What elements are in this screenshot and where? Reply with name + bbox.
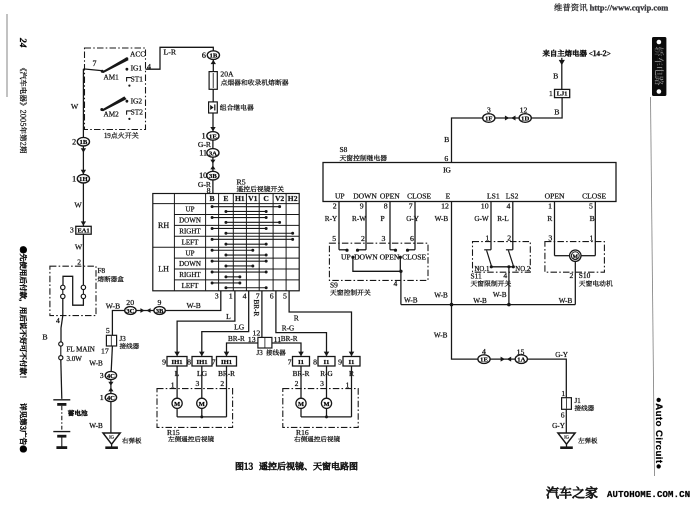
sunroof motor S10 [570, 250, 581, 261]
svg-text:1: 1 [485, 233, 489, 242]
svg-text:I1: I1 [298, 359, 304, 366]
svg-text:R-L: R-L [497, 215, 509, 223]
wire J1 to ground [565, 409, 567, 433]
svg-text:3: 3 [320, 379, 324, 388]
svg-text:7: 7 [288, 357, 292, 366]
svg-text:1: 1 [548, 202, 552, 211]
fusible link left branch [61, 285, 65, 289]
svg-text:7: 7 [212, 357, 216, 366]
wire W-B bus to 1E [452, 305, 479, 360]
svg-text:R-Y: R-Y [325, 215, 338, 223]
battery [53, 399, 70, 401]
svg-text:遥控后视镜、天窗电路图: 遥控后视镜、天窗电路图 [259, 459, 358, 472]
connector EA1 pin 3 [76, 226, 91, 234]
svg-text:轿车电路: 轿车电路 [652, 47, 666, 86]
svg-text:3B: 3B [209, 173, 217, 180]
svg-text:10: 10 [199, 171, 207, 180]
wire LG R5 pin4 to IH1-8 [202, 291, 249, 356]
svg-text:2: 2 [507, 233, 511, 242]
connector 3B pin 10 [207, 171, 219, 180]
R16 motor left [296, 398, 306, 408]
wire R S8 OPEN to S10 [554, 202, 556, 256]
S11 common to pin 4 [491, 266, 513, 268]
wire FL MAIN to battery [61, 360, 62, 399]
svg-text:9: 9 [157, 298, 161, 307]
sunroof control switch S9 box [329, 243, 428, 280]
svg-text:3: 3 [100, 371, 104, 380]
svg-text:组合继电器: 组合继电器 [220, 102, 254, 112]
svg-text:M: M [174, 401, 180, 408]
svg-text:G-W: G-W [474, 215, 489, 223]
svg-text:熔断器盒: 熔断器盒 [98, 273, 125, 283]
right mirror R16 box [283, 389, 358, 428]
wire R-Y S8 UP to S9 [338, 202, 340, 250]
svg-text:右侧遥控后视镜: 右侧遥控后视镜 [294, 434, 341, 444]
S9 switch contacts [339, 249, 347, 251]
mirror switch R5 table [153, 194, 299, 291]
ignition switch box I9 [85, 48, 146, 130]
svg-text:1: 1 [171, 381, 175, 390]
svg-text:W-B: W-B [187, 301, 201, 310]
svg-text:5: 5 [106, 326, 110, 335]
svg-text:M: M [573, 254, 579, 260]
svg-text:LS2: LS2 [506, 191, 519, 200]
svg-text:8: 8 [313, 357, 317, 366]
svg-text:BR-R: BR-R [228, 335, 245, 343]
ground right kick panel [103, 433, 120, 444]
svg-text:J3: J3 [257, 349, 264, 357]
svg-text:接线器: 接线器 [266, 347, 286, 357]
svg-text:1A: 1A [517, 357, 525, 364]
svg-text:3B: 3B [156, 308, 164, 315]
svg-text:1E: 1E [480, 357, 488, 364]
S11 contact NO.1 [484, 249, 491, 251]
connector 3A pin 11 [207, 149, 219, 158]
svg-text:W-B: W-B [473, 297, 487, 305]
svg-text:8: 8 [187, 357, 191, 366]
S10 wire to bus [574, 261, 576, 304]
svg-text:蓄电池: 蓄电池 [68, 408, 88, 418]
mating arrows 1D 1F [495, 117, 520, 119]
svg-text:19点火开关: 19点火开关 [104, 131, 139, 141]
R15 common wire [176, 408, 178, 417]
svg-text:IG2: IG2 [131, 96, 143, 105]
wire W-B S8 E to bus [451, 202, 453, 305]
fuse FL MAIN 3.0W [59, 342, 63, 346]
svg-text:2: 2 [570, 271, 574, 280]
svg-text:5: 5 [332, 234, 336, 243]
mating arrows 3C 3B [140, 308, 144, 313]
svg-text:V1: V1 [248, 194, 257, 203]
ignition switch arm AM1 [101, 57, 129, 73]
svg-text:3: 3 [70, 226, 74, 235]
svg-text:3: 3 [548, 233, 552, 242]
svg-text:UP: UP [186, 206, 195, 214]
svg-text:ACC: ACC [130, 50, 145, 59]
svg-text:W-B: W-B [89, 359, 103, 367]
svg-text:G-Y: G-Y [555, 351, 569, 359]
wire L-R ignition to connector 1B [146, 47, 214, 69]
svg-text:UP: UP [335, 191, 345, 200]
svg-text:ST2: ST2 [131, 108, 144, 117]
svg-text:3: 3 [196, 379, 200, 388]
svg-text:3: 3 [381, 234, 385, 243]
svg-text:W-B: W-B [434, 292, 448, 300]
svg-text:7: 7 [93, 59, 97, 68]
svg-text:IG: IG [443, 165, 451, 174]
svg-text:1: 1 [202, 132, 206, 141]
svg-text:LS1: LS1 [487, 191, 500, 200]
wire J3 to 4C [111, 346, 112, 371]
S11 contact NO.2 [506, 249, 513, 251]
svg-text:LEFT: LEFT [182, 238, 199, 246]
R16 wires into motors [300, 366, 302, 398]
wire W ignition to battery chain [82, 69, 84, 138]
svg-text:B: B [210, 194, 215, 203]
S10 motor wiring [555, 255, 570, 257]
page edge mark left [6, 14, 8, 97]
svg-text:LJ1: LJ1 [557, 91, 568, 98]
svg-text:1B: 1B [80, 139, 88, 146]
ignition switch arm AM2 [100, 96, 126, 111]
wire R-W S8 DOWN to S9 [365, 202, 367, 250]
svg-text:OPEN: OPEN [380, 253, 400, 262]
svg-text:1D: 1D [521, 116, 529, 123]
svg-text:4: 4 [394, 279, 398, 288]
connector 1H pin 1 [77, 174, 89, 183]
svg-text:W-B: W-B [404, 296, 418, 304]
svg-text:BR-R: BR-R [252, 300, 260, 317]
wire G-W S8 LS1 to S11 [490, 202, 492, 250]
svg-text:2: 2 [220, 379, 224, 388]
svg-text:FL MAIN: FL MAIN [67, 345, 95, 353]
svg-text:C: C [263, 194, 268, 203]
ground bus W-B [401, 304, 575, 306]
svg-text:7: 7 [409, 202, 413, 211]
svg-text:V2: V2 [275, 194, 284, 203]
wire BR-R J3 to IH1-7 [227, 343, 258, 356]
svg-text:1H: 1H [79, 176, 88, 183]
svg-text:9: 9 [162, 357, 166, 366]
wire EA1 to fuse box F8 [82, 234, 84, 266]
svg-text:1: 1 [229, 291, 233, 300]
svg-text:左弹板: 左弹板 [578, 436, 598, 445]
svg-text:LH: LH [158, 265, 169, 274]
fusible link right branch [82, 266, 84, 285]
svg-text:LEFT: LEFT [182, 282, 199, 290]
svg-text:RIGHT: RIGHT [179, 227, 201, 235]
mating arrows 4C pair [110, 380, 112, 394]
svg-text:P: P [380, 214, 384, 223]
svg-text:B: B [554, 108, 559, 117]
svg-text:2: 2 [295, 379, 299, 388]
svg-text:天窗电动机: 天窗电动机 [579, 278, 613, 288]
svg-text:8: 8 [384, 202, 388, 211]
svg-text:CLOSE: CLOSE [582, 191, 606, 200]
svg-text:图13: 图13 [235, 459, 253, 472]
svg-text:24: 24 [17, 37, 27, 48]
wire W-B R5 pin3 to J3 [112, 291, 220, 336]
R15 motor right [197, 398, 207, 408]
svg-text:W: W [74, 201, 82, 210]
feed arrow [559, 60, 565, 65]
svg-text:4C: 4C [107, 373, 115, 380]
wire B S8 CLOSE to S10 [594, 202, 596, 256]
svg-text:5: 5 [589, 202, 593, 211]
svg-text:G-Y: G-Y [406, 215, 420, 223]
svg-text:11: 11 [199, 149, 207, 158]
svg-text:17: 17 [101, 346, 109, 355]
svg-text:1F: 1F [485, 116, 492, 123]
svg-text:5: 5 [283, 291, 287, 300]
svg-text:AM2: AM2 [104, 111, 120, 119]
svg-text:6: 6 [561, 410, 565, 419]
svg-text:4: 4 [506, 202, 510, 211]
svg-text:9: 9 [360, 202, 364, 211]
svg-text:UP: UP [186, 249, 195, 257]
svg-text:1: 1 [100, 393, 104, 402]
svg-text:DOWN: DOWN [179, 260, 201, 268]
right margin rule [651, 97, 655, 476]
sunroof motor S10 box [545, 242, 605, 273]
svg-text:4: 4 [147, 62, 151, 71]
svg-text:B: B [590, 214, 595, 223]
svg-text:AUTOHOME.COM.CN: AUTOHOME.COM.CN [607, 490, 690, 500]
svg-text:UP: UP [341, 253, 351, 262]
svg-text:IG1: IG1 [131, 64, 143, 73]
R16 common wire [300, 408, 302, 417]
combination relay box [209, 102, 218, 113]
S9 common bus to pin 4 [353, 257, 401, 271]
svg-text:3: 3 [215, 291, 219, 300]
wire fuse to combination relay [212, 89, 214, 102]
svg-text:12: 12 [441, 202, 449, 211]
svg-text:6: 6 [202, 51, 206, 60]
svg-text:R-G: R-G [282, 324, 294, 332]
svg-text:B: B [553, 71, 558, 80]
left mirror R15 box [157, 389, 233, 428]
svg-text:4C: 4C [107, 395, 115, 402]
svg-text:DOWN: DOWN [179, 217, 201, 225]
svg-text:IH1: IH1 [221, 359, 232, 366]
svg-text:接线器: 接线器 [120, 341, 140, 351]
svg-text:遥控后视镜开关: 遥控后视镜开关 [237, 183, 285, 193]
svg-text:W: W [75, 243, 83, 252]
svg-text:M: M [199, 401, 205, 408]
svg-text:2: 2 [361, 234, 365, 243]
svg-text:H2: H2 [288, 194, 298, 203]
connector IH1 pin 8 [192, 357, 212, 367]
svg-text:BR-R: BR-R [281, 335, 298, 343]
svg-text:《汽车电器》2005年第2期: 《汽车电器》2005年第2期 [18, 64, 29, 154]
connector I1 pin 8 [318, 357, 335, 367]
svg-text:天窗限制开关: 天窗限制开关 [471, 278, 512, 288]
svg-text:2: 2 [72, 137, 76, 146]
svg-text:W-B: W-B [434, 332, 448, 340]
svg-text:1: 1 [72, 174, 76, 183]
svg-text:IG: IG [109, 434, 115, 439]
svg-text:来自主熔电器 <14-2>: 来自主熔电器 <14-2> [543, 48, 611, 59]
svg-text:天窗控制开关: 天窗控制开关 [330, 287, 371, 297]
wire P S8 OPEN to S9 [389, 202, 391, 250]
svg-text:RH: RH [158, 221, 169, 230]
svg-text:1: 1 [346, 381, 350, 390]
svg-text:2: 2 [77, 258, 81, 267]
svg-text:20: 20 [126, 298, 134, 307]
svg-text:DOWN: DOWN [354, 253, 378, 262]
svg-text:1B: 1B [210, 53, 218, 60]
svg-text:IG: IG [564, 434, 570, 439]
svg-text:EA1: EA1 [77, 227, 89, 234]
svg-text:维普资讯 http://www.cqvip.com: 维普资讯 http://www.cqvip.com [554, 2, 668, 14]
connector IH1 pin 9 [167, 357, 187, 367]
svg-text:右弹板: 右弹板 [122, 436, 142, 445]
svg-text:详见第3广告●: 详见第3广告● [18, 403, 29, 453]
vertical badge black [652, 37, 666, 96]
svg-text:6: 6 [444, 154, 448, 163]
ground left kick panel [558, 433, 575, 444]
ignition wire pin7 to AM1 [83, 69, 101, 71]
sunroof control relay S8 box [323, 163, 616, 202]
wire 1H to EA1 [82, 183, 84, 226]
wire 3A to 3B with mating arrows [212, 157, 214, 171]
svg-text:CLOSE: CLOSE [402, 253, 426, 262]
svg-text:OPEN: OPEN [545, 191, 565, 200]
svg-text:W-B: W-B [435, 215, 449, 223]
svg-text:W-B: W-B [559, 297, 573, 305]
svg-text:E: E [223, 194, 228, 203]
R15 wires into motors [176, 366, 178, 398]
svg-text:左侧遥控后视镜: 左侧遥控后视镜 [168, 434, 215, 444]
wire BR-R R5 pin7 to J3 middle [261, 291, 263, 338]
svg-text:L: L [226, 312, 231, 321]
connector IH1 pin 7 [217, 357, 237, 367]
mating arrows 1E 1A [490, 358, 516, 360]
connector 1B pin 6 top [211, 60, 216, 64]
svg-text:ST1: ST1 [131, 74, 144, 83]
wire BR-R J3 to I1-7 [272, 343, 301, 356]
svg-text:9: 9 [338, 357, 342, 366]
svg-text:1: 1 [549, 89, 553, 98]
R5 contact matrix [212, 206, 280, 208]
svg-text:3C: 3C [126, 308, 134, 315]
svg-text:NO.2: NO.2 [515, 266, 531, 273]
svg-text:AM1: AM1 [104, 74, 120, 82]
svg-text:OPEN: OPEN [380, 191, 400, 200]
svg-text:10: 10 [481, 202, 489, 211]
svg-text:W-B: W-B [493, 291, 507, 299]
wire B 1F to S8 coil IG [452, 118, 484, 163]
svg-text:6: 6 [410, 234, 414, 243]
svg-text:E: E [446, 191, 451, 200]
svg-text:3.0W: 3.0W [67, 355, 83, 363]
svg-text:I1: I1 [349, 359, 355, 366]
wire L R5 pin1 to IH1-9 [177, 291, 235, 356]
svg-text:I1: I1 [324, 359, 330, 366]
svg-text:3A: 3A [209, 150, 217, 157]
svg-text:1: 1 [589, 233, 593, 242]
svg-text:●先使用后付款，用后说不好可不付款！: ●先使用后付款，用后说不好可不付款！ [18, 246, 29, 383]
svg-text:DOWN: DOWN [353, 191, 377, 200]
wire G-Y S8 CLOSE to S9 [414, 202, 416, 250]
wire R-G R5 pin6 to I1-8 [276, 291, 327, 356]
svg-text:LG: LG [234, 323, 245, 332]
connector I1 pin 9 [343, 357, 360, 367]
fusible link box F8 [50, 266, 96, 315]
svg-text:点烟器和收录机熔断器: 点烟器和收录机熔断器 [221, 77, 289, 87]
fuse 20A cigarette lighter radio [209, 72, 217, 90]
svg-text:1: 1 [561, 389, 565, 398]
wire 4C to ground [110, 402, 112, 433]
svg-text:2: 2 [333, 202, 337, 211]
svg-text:接线器: 接线器 [575, 403, 595, 413]
svg-text:B: B [42, 332, 47, 341]
R16 motor right [321, 398, 331, 408]
svg-text:汽车之家: 汽车之家 [546, 483, 598, 502]
svg-text:G-Y: G-Y [552, 422, 566, 430]
svg-text:M: M [323, 401, 329, 408]
svg-text:B: B [444, 135, 449, 144]
sunroof limit switch S11 box [473, 242, 531, 273]
wire relay to connector 1E [212, 113, 214, 132]
svg-text:天窗控制继电器: 天窗控制继电器 [340, 152, 388, 162]
svg-text:IH1: IH1 [197, 359, 208, 366]
connector 1E pin 1 [207, 132, 219, 141]
svg-text:R-W: R-W [352, 215, 366, 223]
wire 1B to fuse [212, 59, 214, 71]
svg-text:4: 4 [243, 291, 247, 300]
svg-text:H1: H1 [235, 194, 245, 203]
svg-text:RIGHT: RIGHT [179, 271, 201, 279]
mating arrows below 1B [82, 146, 84, 175]
R15 motor left [172, 398, 182, 408]
connector 1B pin 2 left [77, 137, 89, 146]
svg-text:IH1: IH1 [172, 359, 183, 366]
svg-text:M: M [298, 401, 304, 408]
wire R R5 pin5 to I1-9 [289, 291, 351, 356]
wire G-Y 1A to J1 [527, 359, 566, 398]
svg-text:CLOSE: CLOSE [407, 191, 431, 200]
svg-text:●Auto Circuit●: ●Auto Circuit● [653, 397, 664, 470]
wire LJ1 to 1D [531, 98, 562, 118]
svg-text:W-B: W-B [106, 302, 120, 311]
svg-text:W-B: W-B [89, 422, 103, 430]
svg-text:L-R: L-R [164, 48, 177, 57]
wire R-L S8 LS2 to S11 [512, 202, 514, 250]
svg-text:6: 6 [270, 291, 274, 300]
svg-text:4: 4 [56, 316, 60, 325]
wire B F8 to FL MAIN [61, 316, 63, 342]
svg-text:W: W [71, 102, 79, 111]
connector I1 pin 7 [293, 357, 310, 367]
